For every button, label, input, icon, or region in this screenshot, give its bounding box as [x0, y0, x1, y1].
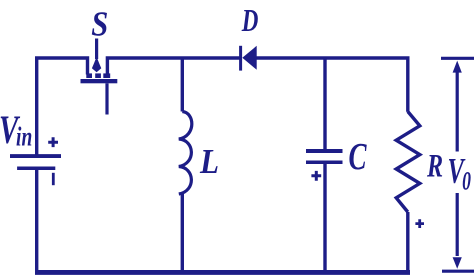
wire capacitor bottom lead	[323, 162, 326, 271]
svg-text:L: L	[199, 142, 219, 181]
diode D cathode bar	[239, 46, 242, 71]
wire resistor top lead	[406, 58, 409, 112]
wire capacitor top lead	[323, 58, 326, 151]
battery Vin top plate	[10, 154, 61, 158]
resistor R zigzag	[396, 112, 420, 213]
wire resistor bottom lead	[406, 212, 409, 271]
wire top rail switch to diode	[107, 58, 239, 75]
inductor L coil	[179, 112, 192, 195]
wire top rail diode to right corner	[257, 56, 410, 59]
svg-text:C: C	[349, 137, 368, 179]
V0 up arrow line	[456, 72, 459, 152]
capacitor C bottom plate	[306, 160, 343, 164]
V0 top tick	[441, 57, 474, 60]
switch S channel bar	[81, 79, 118, 83]
wire inductor top lead	[181, 58, 184, 112]
svg-text:R: R	[426, 148, 443, 185]
battery plus sign	[48, 137, 58, 147]
capacitor plus sign	[311, 171, 321, 181]
svg-text:Vin: Vin	[0, 107, 32, 152]
wire inductor bottom lead	[181, 194, 184, 272]
switch S gate lead	[95, 39, 98, 60]
svg-text:V0: V0	[448, 151, 471, 195]
switch S center contact tick	[95, 73, 101, 78]
battery minus tick	[52, 173, 55, 185]
switch S left contact tick	[86, 73, 92, 78]
capacitor C top plate	[306, 149, 343, 153]
V0 up arrowhead	[453, 61, 462, 73]
svg-text:D: D	[241, 3, 258, 39]
switch S gate arrow	[92, 57, 101, 73]
bottom rail	[35, 270, 410, 275]
diode D triangle	[242, 46, 256, 70]
svg-text:S: S	[91, 6, 108, 44]
battery Vin bottom plate	[17, 166, 55, 170]
switch S right contact tick	[103, 73, 110, 78]
V0 down arrow line	[456, 193, 459, 256]
wire top-left from Vin to switch	[37, 58, 88, 156]
resistor plus sign	[415, 219, 424, 228]
V0 bottom tick	[442, 270, 474, 273]
wire Vin bottom lead	[35, 168, 38, 271]
switch S hanging lead	[105, 83, 108, 114]
V0 down arrowhead	[453, 257, 462, 269]
